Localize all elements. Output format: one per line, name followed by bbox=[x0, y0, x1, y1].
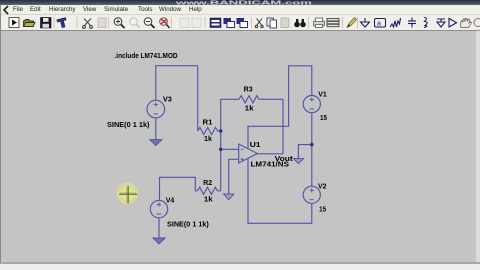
icon: window pair 1 bbox=[224, 18, 235, 28]
wire summing node vertical bbox=[220, 99, 222, 191]
wire supply midpoint to ground bbox=[298, 145, 311, 159]
icon: print stack bbox=[327, 19, 339, 27]
svg-text:V2: V2 bbox=[318, 183, 327, 190]
icon: scissors bbox=[83, 19, 93, 29]
wire feedback vertical to output bbox=[282, 99, 284, 154]
icon: label tool bbox=[375, 19, 386, 28]
V4 plus minus marks bbox=[157, 202, 161, 214]
voltage source V1 circle bbox=[303, 96, 320, 113]
icon: paste grayed bbox=[98, 18, 106, 28]
wire V3 bottom to ground bbox=[155, 118, 157, 140]
svg-text:Vout: Vout bbox=[275, 156, 294, 163]
wire R2 left bbox=[160, 177, 198, 200]
svg-text:SINE(0 1 1k): SINE(0 1 1k) bbox=[107, 122, 150, 129]
icon: save floppy bbox=[41, 18, 52, 29]
icon: zoom out bbox=[144, 18, 154, 28]
junction supply midpoint bbox=[310, 143, 314, 147]
svg-text:V4: V4 bbox=[166, 198, 175, 205]
op-amp input polarity marks bbox=[241, 149, 244, 161]
icon: open folder bbox=[24, 20, 36, 27]
svg-text:15: 15 bbox=[320, 115, 327, 122]
svg-text:1k: 1k bbox=[204, 136, 212, 143]
cursor glow bbox=[117, 183, 139, 205]
icon: window pair 2 bbox=[237, 18, 248, 28]
svg-text:V3: V3 bbox=[163, 96, 172, 103]
V3 plus minus marks bbox=[154, 102, 158, 114]
svg-text:SINE(0 1 1k): SINE(0 1 1k) bbox=[167, 221, 209, 228]
app icon bbox=[1, 5, 13, 15]
icon: cut bbox=[255, 19, 263, 28]
wire op-amp output to Vout bbox=[258, 153, 284, 155]
resistor R1 body bbox=[198, 127, 218, 134]
svg-text:.include LM741.MOD: .include LM741.MOD bbox=[115, 53, 178, 60]
svg-text:1k: 1k bbox=[245, 106, 254, 113]
junction R1/summing bbox=[219, 129, 223, 133]
menu bar bbox=[0, 5, 480, 15]
icon: new/run doc bbox=[9, 18, 19, 28]
wire R1 right stub bbox=[218, 130, 221, 132]
voltage source V3 circle bbox=[147, 100, 165, 118]
svg-text:R1: R1 bbox=[203, 120, 213, 127]
junction inverting input bbox=[219, 148, 223, 152]
wire top rail V3-R1 bbox=[155, 65, 197, 67]
bandicam watermark bar bbox=[0, 0, 480, 5]
resistor R2 body bbox=[198, 187, 218, 194]
icon: control panel hammer bbox=[57, 18, 68, 29]
wire inverting input bbox=[221, 148, 239, 150]
icon: zoom in bbox=[114, 18, 124, 28]
icon: copy bbox=[267, 18, 277, 28]
svg-text:15: 15 bbox=[319, 206, 326, 213]
ground below V4 bbox=[153, 238, 165, 244]
wire V- rail V2 to op-amp bbox=[248, 159, 312, 224]
wire non-inverting input bbox=[229, 159, 239, 194]
ground at non-inverting input bbox=[224, 194, 234, 200]
wire V4 bottom to ground bbox=[158, 218, 160, 238]
cursor crosshair bbox=[119, 186, 138, 204]
wire R3 right to feedback corner bbox=[259, 98, 283, 100]
svg-text:V1: V1 bbox=[318, 92, 327, 99]
icon: inductor tool bbox=[424, 18, 427, 28]
ground below V3 bbox=[150, 140, 162, 146]
svg-text:R2: R2 bbox=[203, 180, 212, 187]
V1 plus minus marks bbox=[310, 97, 314, 109]
icon: capacitor tool bbox=[408, 18, 416, 28]
icon: ground tool bbox=[361, 18, 370, 27]
icon: printer bbox=[314, 18, 325, 28]
wire V1 bottom to V2 top bbox=[311, 113, 313, 187]
icon: pencil bbox=[347, 18, 357, 28]
wire V3 top to rail bbox=[155, 66, 157, 101]
icon: diode tool bbox=[437, 19, 445, 27]
toolbar bbox=[0, 15, 480, 31]
wire R2 right stub bbox=[218, 190, 221, 192]
icon: zoom grayed bbox=[130, 18, 140, 28]
ground at supply midpoint bbox=[293, 159, 303, 164]
icon: partial right bbox=[474, 19, 480, 27]
icon: zoom full red x bbox=[160, 18, 170, 28]
icon: paste grayed 2 bbox=[281, 18, 289, 28]
V2 plus minus marks bbox=[310, 188, 314, 200]
voltage source V4 circle bbox=[150, 200, 167, 217]
icon: hand move bbox=[460, 18, 471, 27]
icon: resistor tool bbox=[390, 18, 401, 27]
icon: find binoculars bbox=[294, 19, 306, 27]
svg-text:R3: R3 bbox=[244, 87, 253, 94]
icon: component tool bbox=[449, 19, 457, 28]
svg-text:U1: U1 bbox=[250, 142, 261, 149]
op-amp U1 triangle bbox=[239, 144, 258, 163]
svg-text:1k: 1k bbox=[204, 196, 213, 203]
wire R3 left bbox=[221, 98, 239, 100]
wire rail down to R1 left bbox=[197, 66, 199, 131]
icons: grayed pair bbox=[180, 18, 201, 28]
icon: striped window bbox=[210, 18, 221, 28]
resistor R3 body bbox=[239, 96, 259, 103]
wire V+ rail V1 to op-amp bbox=[248, 66, 312, 149]
voltage source V2 circle bbox=[303, 186, 320, 203]
separators bbox=[54, 17, 358, 28]
